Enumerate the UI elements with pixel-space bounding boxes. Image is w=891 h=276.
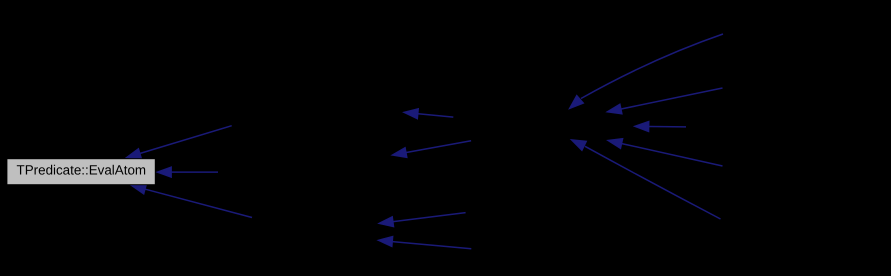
- edge -> hidden node R3: [634, 121, 686, 132]
- edge -> hidden node M4: [378, 236, 472, 249]
- edge curved-top -> hidden node R1: [569, 34, 723, 109]
- edge -> hidden node M3: [378, 213, 465, 227]
- edge caller-top -> TPredicate::EvalAtom: [126, 126, 232, 159]
- edge -> hidden node R4: [607, 138, 722, 166]
- node TPredicate::EvalAtom (current function, grey box): [7, 159, 155, 185]
- svg-text:TPredicate::EvalAtom: TPredicate::EvalAtom: [17, 163, 147, 178]
- edge caller-mid -> TPredicate::EvalAtom: [157, 167, 219, 178]
- edge -> hidden node R2: [607, 88, 723, 114]
- edge curved-bottom -> hidden node R5: [571, 140, 721, 220]
- edge -> hidden node M1: [403, 108, 453, 119]
- edge -> hidden node M2: [392, 141, 472, 158]
- edge caller-bottom -> TPredicate::EvalAtom: [131, 184, 252, 218]
